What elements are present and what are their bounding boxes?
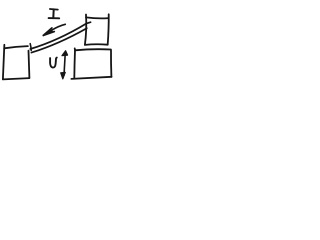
label U <box>50 58 57 68</box>
left block top edge <box>4 46 28 48</box>
left block right edge <box>28 51 31 78</box>
left block left edge <box>3 45 4 79</box>
label I <box>49 9 60 18</box>
top right block top edge <box>86 16 109 19</box>
voltage arrow top head <box>62 51 68 56</box>
wire upper slanted line <box>30 22 90 49</box>
bottom right block top edge with corner nub <box>75 48 111 50</box>
wire lower slanted line <box>31 28 86 52</box>
top right block bottom edge <box>85 43 108 46</box>
bottom right block bottom edge <box>71 77 111 79</box>
bottom right block left edge <box>73 50 76 78</box>
voltage double arrow shaft <box>64 54 65 75</box>
corner spur at left block <box>30 44 31 51</box>
arrow for current I <box>43 24 65 35</box>
voltage arrow bottom head <box>61 72 66 79</box>
left block bottom edge <box>3 78 29 79</box>
top right block right edge <box>108 14 109 44</box>
top right block left edge <box>85 15 86 45</box>
bottom right block right edge <box>110 50 112 77</box>
